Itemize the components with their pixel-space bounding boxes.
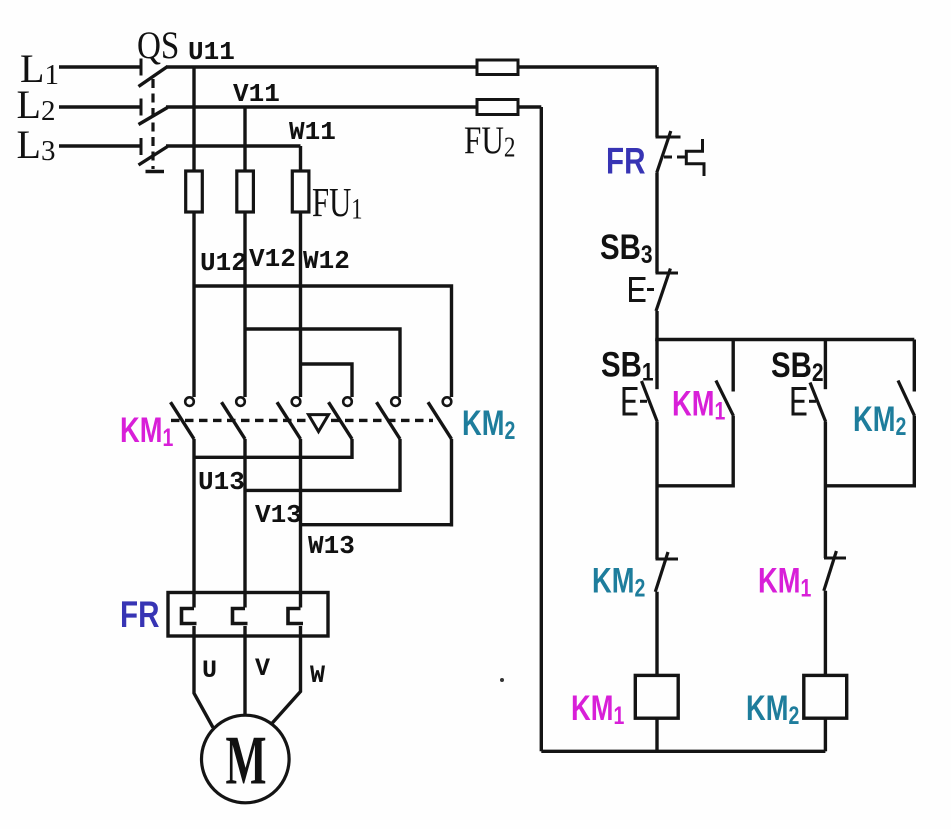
svg-text:W11: W11 <box>289 117 336 147</box>
button SB2 dashed link <box>809 400 818 403</box>
switch QS pole 1 fixed contact <box>140 59 143 76</box>
svg-text:W12: W12 <box>303 246 350 276</box>
button SB1 blade <box>642 381 658 422</box>
fuse FU1-c <box>292 171 309 212</box>
svg-text:U: U <box>202 656 217 685</box>
relay FR heater element 1 <box>182 609 197 624</box>
wire contact2 down <box>243 439 246 608</box>
wire V to motor <box>243 626 246 716</box>
stray dot <box>500 678 504 682</box>
wire link V13 <box>245 489 400 492</box>
button SB3 tick <box>656 272 679 275</box>
wire U12 branch to KM2 contact 6 <box>194 286 452 397</box>
wire V12 branch to KM2 contact 5 <box>245 329 400 397</box>
wire contact4 down <box>350 439 353 459</box>
fuse FU2-a <box>477 60 518 75</box>
contactor KM2 aux blade <box>898 381 915 416</box>
contactor KM2 aux contact branch wire <box>913 340 916 392</box>
wire control bottom <box>541 750 825 753</box>
svg-text:U11: U11 <box>188 37 235 67</box>
svg-text:V: V <box>255 654 270 683</box>
switch QS pole 2 fixed contact <box>140 99 143 116</box>
wire FR to SB3 <box>655 173 658 274</box>
button SB2 actuator E <box>793 389 807 415</box>
wire L1 to QS <box>59 65 141 68</box>
wire contact1 down to FR heater <box>192 439 195 608</box>
switch QS linkage end tick <box>146 170 165 173</box>
button SB1 actuator E <box>624 389 638 415</box>
relay FR heater element 2 <box>233 609 248 624</box>
svg-text:U13: U13 <box>198 467 245 497</box>
wire SB1 branch bottom <box>657 484 733 487</box>
wire control rail right top <box>655 67 658 137</box>
contactor KM2 main contact 4 <box>343 397 352 406</box>
contactor KM1 NC interlock blade <box>824 551 837 591</box>
wire W12 branch to KM2 contact 4 <box>301 364 353 397</box>
wire SB3 to bus <box>655 311 658 341</box>
wire contact5 down <box>398 439 401 492</box>
svg-text:W13: W13 <box>308 531 355 561</box>
wire W to motor <box>271 626 301 725</box>
contactor KM1 aux contact branch wire <box>732 340 735 392</box>
wire link W13 <box>301 523 452 526</box>
svg-text:V12: V12 <box>249 244 296 274</box>
svg-text:QS: QS <box>137 24 179 67</box>
contactor KM2 NC interlock blade <box>655 552 668 592</box>
coil KM1 <box>635 675 678 718</box>
wire bus to SB2 <box>824 340 827 390</box>
fuse FU1-b <box>237 171 254 212</box>
fuse FU2-b <box>477 100 518 115</box>
svg-text:FR: FR <box>120 595 159 636</box>
contactor KM2 main contact 5 <box>391 397 400 406</box>
switch QS linkage dashed <box>151 79 154 169</box>
wire KM2 NC to coil KM1 <box>655 592 658 676</box>
button SB2 blade <box>810 383 826 422</box>
wire L3 bus <box>166 144 301 147</box>
contactor KM1 NC interlock tick <box>824 557 846 560</box>
wire control bus horizontal <box>655 338 914 342</box>
wire contact6 down <box>450 439 453 527</box>
wire KM1 NC to coil KM2 <box>824 591 827 676</box>
contactor KM1 main contact 1 <box>185 397 194 406</box>
switch QS pole 3 fixed contact <box>140 138 143 155</box>
svg-text:V13: V13 <box>255 500 302 530</box>
switch QS pole 3 blade <box>139 147 168 166</box>
contactor KM2 NC interlock tick <box>656 558 679 561</box>
wire phase V vertical V11-V12 <box>243 107 246 397</box>
relay FR NC contact tick <box>656 136 681 139</box>
wire KM1 aux down <box>732 416 735 488</box>
wire link U13 <box>194 456 352 459</box>
button SB1 dashed link <box>640 400 649 403</box>
wire L2 bus <box>166 105 541 108</box>
svg-text:U12: U12 <box>200 248 247 278</box>
button SB3 actuator E <box>631 279 646 301</box>
contactor KM1 main contact 2 <box>236 397 245 406</box>
wire L2 to QS <box>59 105 141 108</box>
wire bus to SB1 <box>655 340 658 390</box>
wire phase W vertical W11-W12 <box>299 146 302 397</box>
fuse FU1-a <box>186 171 203 212</box>
svg-text:FR: FR <box>606 141 645 182</box>
wire SB1 down <box>655 422 658 559</box>
motor M circle <box>202 715 290 803</box>
wire KM2 aux down <box>913 416 916 488</box>
switch QS pole 2 blade <box>139 108 168 125</box>
wire phase U vertical U11-U12 <box>192 67 195 397</box>
contactor KM1 main contact 3 <box>292 397 301 406</box>
wire L3 to QS <box>59 144 141 147</box>
wire L1 bus to control rail <box>166 65 657 68</box>
relay FR reset bracket <box>686 139 704 176</box>
wire coil KM2 to bottom <box>824 718 827 751</box>
contactor KM1 aux blade <box>716 381 734 416</box>
svg-text:W: W <box>310 661 325 690</box>
coil KM2 <box>804 675 847 718</box>
wire coil KM1 to bottom <box>655 718 658 751</box>
wire U to motor <box>194 626 213 728</box>
linkage dashed KM1-KM2 <box>171 419 306 422</box>
linkage triangle symbol <box>309 415 329 432</box>
wire SB2 branch bottom <box>825 484 914 487</box>
wire SB2 down <box>824 422 827 558</box>
button SB3 dashed link <box>647 288 658 291</box>
relay FR NC contact blade <box>657 131 671 173</box>
relay FR heater box <box>168 593 328 637</box>
svg-text:M: M <box>226 723 267 800</box>
button SB3 blade <box>656 269 670 312</box>
contactor KM2 main contact 6 <box>443 397 452 406</box>
wire left control rail <box>540 107 543 751</box>
svg-text:V11: V11 <box>233 79 280 109</box>
switch QS pole 1 blade <box>139 67 168 87</box>
wire contact3 down <box>299 439 302 608</box>
relay FR NC contact dashed link <box>664 156 686 159</box>
relay FR heater element 3 <box>288 609 303 624</box>
